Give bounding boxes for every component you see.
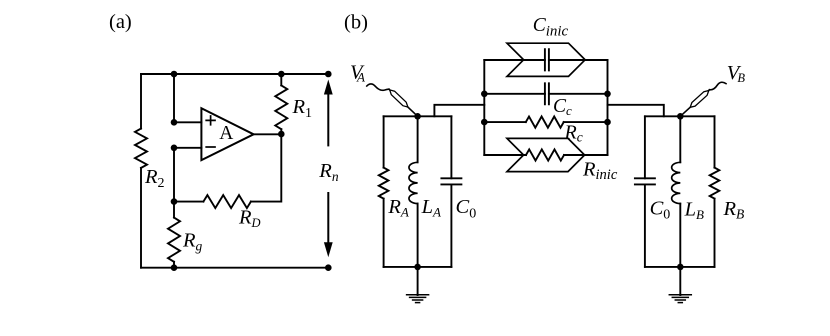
symbol: Cinic initialization arrow outline	[507, 43, 585, 76]
op-amp A: triangle body	[201, 108, 253, 160]
resistor R1	[275, 85, 287, 129]
wire: R1 top lead	[280, 74, 282, 85]
junction: inverting input node	[171, 145, 178, 152]
probe VA: needle	[389, 89, 418, 116]
svg-text:Cc: Cc	[553, 96, 572, 118]
svg-text:R1: R1	[292, 96, 313, 121]
junction: feedback node at RD left	[171, 198, 178, 205]
svg-text:VB: VB	[727, 62, 746, 85]
svg-text:LB: LB	[684, 199, 704, 222]
svg-text:RB: RB	[723, 198, 745, 221]
svg-text:Rg: Rg	[182, 230, 203, 254]
wire: left rail upper segment (a)	[140, 74, 142, 129]
wire: op-amp output to node	[254, 133, 282, 135]
wire: coupling right rail	[607, 60, 609, 155]
wire: feed to non-inverting input	[174, 74, 201, 122]
arrow: Rn upper (pointing up)	[324, 80, 333, 146]
svg-text:LA: LA	[421, 196, 441, 220]
wire: output node down to feedback level	[251, 134, 281, 202]
svg-text:A: A	[219, 123, 233, 144]
wire: RD left lead	[174, 201, 203, 203]
wire: R1 bottom lead	[280, 129, 282, 134]
wire: resonator B top	[645, 115, 715, 117]
resistor RD	[203, 195, 251, 208]
svg-text:Rinic: Rinic	[582, 159, 618, 183]
junction: bottom rail / Rg	[171, 264, 178, 271]
capacitor C0 (resonator A)	[441, 116, 461, 267]
junction: top rail / R1	[278, 71, 285, 78]
resistor Rc (third branch)	[484, 117, 607, 128]
op-amp A: non-inverting pin + sign	[206, 116, 215, 125]
junction: resonator A bottom	[414, 264, 421, 271]
ground (resonator B)	[669, 267, 691, 303]
symbol: Rinic initialization arrow outline	[507, 138, 585, 171]
probe VB: squiggle lead	[710, 82, 727, 90]
op-amp A: inverting pin - sign	[206, 146, 215, 148]
junction: right rail / Rc	[604, 119, 611, 126]
capacitor C0 (resonator B)	[635, 116, 655, 267]
svg-text:C0: C0	[456, 196, 477, 221]
wire: resonator B bottom	[645, 266, 715, 268]
wire: resonator A bottom	[384, 266, 452, 268]
junction: non-inverting input node	[171, 119, 178, 126]
resistor R2	[135, 129, 147, 168]
svg-text:(b): (b)	[344, 12, 368, 34]
junction: resonator B bottom	[677, 264, 684, 271]
probe VB: needle	[680, 90, 709, 117]
wire: coupling left rail	[483, 60, 485, 155]
svg-text:(a): (a)	[109, 11, 132, 33]
svg-text:VA: VA	[350, 61, 365, 84]
junction: left rail / Rc	[481, 119, 488, 126]
svg-text:RA: RA	[387, 196, 409, 220]
svg-text:Rn: Rn	[318, 160, 339, 184]
arrow: Rn lower (pointing down)	[324, 193, 333, 257]
wire: bottom rail (a)	[141, 267, 328, 269]
junction: right rail / Cc	[604, 91, 611, 98]
junction: output node	[278, 131, 285, 138]
node VA: junction resonator A top	[414, 113, 421, 120]
wire: top rail (a)	[141, 73, 328, 75]
wire: Rg bottom lead	[173, 262, 175, 268]
ground (resonator A)	[407, 267, 429, 303]
node: Rn bottom terminal	[325, 264, 332, 271]
resistor Rg	[168, 218, 180, 262]
svg-text:Rc: Rc	[564, 122, 583, 145]
inductor LB	[672, 116, 681, 267]
wire: inverting input to feedback column	[174, 148, 201, 202]
svg-text:Cinic: Cinic	[533, 15, 569, 39]
svg-text:RD: RD	[238, 206, 261, 230]
node VB: junction resonator B top	[677, 113, 684, 120]
capacitor Cc (second branch)	[484, 83, 607, 104]
svg-text:R2: R2	[144, 166, 165, 191]
wire: stub coupling right rail to resonator B	[608, 105, 664, 117]
wire: Rg top lead	[173, 202, 175, 218]
junction: left rail / Cc	[481, 91, 488, 98]
probe VA: squiggle lead	[367, 84, 389, 90]
node: Rn top terminal	[325, 71, 332, 78]
wire: stub resonator A to coupling left rail	[434, 105, 484, 117]
resistor RA	[379, 116, 389, 267]
capacitor Cinic (top branch, tunable arrow symbol)	[484, 49, 607, 70]
junction: top rail / input column	[171, 71, 178, 78]
wire: left rail lower segment (a)	[140, 168, 142, 268]
wire: resonator A top	[384, 115, 452, 117]
inductor LA	[409, 116, 418, 267]
resistor Rinic (bottom branch)	[484, 149, 607, 160]
resistor RB	[710, 116, 720, 267]
svg-text:C0: C0	[650, 198, 671, 223]
